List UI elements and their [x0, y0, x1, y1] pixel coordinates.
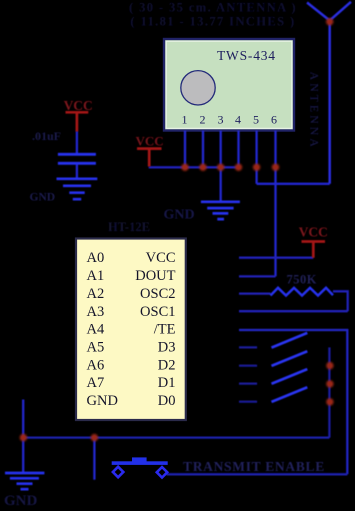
wire OSC2 row: [239, 292, 271, 294]
U1 pin labels left column: [87, 250, 118, 409]
junction dot antenna vertex: [326, 18, 333, 25]
wire pin3 vertical to ground: [220, 131, 222, 202]
svg-text:( 30 - 35 cm. ANTENNA ): ( 30 - 35 cm. ANTENNA ): [129, 1, 297, 15]
junction dots bottom rail: [20, 434, 98, 441]
svg-text:3: 3: [218, 113, 224, 127]
ground symbol under pin3: [201, 202, 240, 219]
svg-text:1: 1: [182, 113, 188, 127]
junction dots pin row: [181, 164, 279, 171]
label ANTENNA vertical: [307, 72, 321, 150]
label .01uF: [32, 129, 61, 143]
svg-text:GND: GND: [4, 493, 38, 509]
wire VCC row to right VCC: [239, 257, 313, 259]
svg-text:GND: GND: [164, 208, 195, 223]
svg-text:HT-12E: HT-12E: [108, 220, 150, 234]
note antenna length line 1: [129, 1, 297, 15]
svg-text:.01uF: .01uF: [32, 129, 61, 143]
svg-text:2: 2: [200, 113, 206, 127]
svg-text:A2: A2: [87, 286, 105, 302]
wire D2 stub: [239, 365, 257, 367]
power symbol VCC middle: [137, 149, 162, 167]
switch S1 lever D3: [272, 333, 308, 348]
wire bottom ground rail: [23, 436, 329, 438]
wire antenna horizontal from pin5: [257, 183, 330, 185]
wire D3 stub: [239, 346, 257, 348]
resistor R1 750K zigzag: [271, 288, 334, 296]
wire antenna vertical: [328, 21, 331, 184]
svg-text:A6: A6: [87, 357, 105, 373]
capacitor C1 plates: [58, 154, 96, 163]
svg-text:D0: D0: [158, 393, 176, 409]
svg-text:750K: 750K: [287, 273, 317, 287]
svg-text:A7: A7: [87, 375, 105, 391]
U1 pin labels right column: [135, 250, 175, 409]
switch S4 lever D0: [272, 387, 308, 402]
wire /TE row and right loop down: [239, 330, 347, 474]
capacitor C1 bottom lead: [76, 164, 78, 178]
svg-text:A1: A1: [87, 268, 105, 284]
pushbutton SW transmit enable: [112, 457, 168, 477]
wire /TE bottom to button: [167, 473, 348, 475]
svg-text:A3: A3: [87, 304, 105, 320]
svg-text:5: 5: [253, 113, 259, 127]
svg-text:GND: GND: [30, 192, 56, 204]
wire pin5 vertical: [255, 131, 257, 184]
wire pin1 vertical: [184, 131, 186, 168]
wire button riser: [93, 438, 95, 480]
antenna symbol arms: [307, 2, 351, 21]
svg-text:A5: A5: [87, 340, 105, 356]
encoder U1 HT-12E box: [76, 239, 186, 421]
svg-text:A0: A0: [87, 250, 105, 266]
label GND top-left: [30, 192, 56, 204]
svg-text:/TE: /TE: [154, 322, 176, 338]
wire OSC1 row: [239, 310, 348, 312]
svg-text:OSC2: OSC2: [140, 286, 175, 302]
ground symbol top-left: [57, 179, 98, 199]
svg-text:OSC1: OSC1: [140, 304, 175, 320]
svg-text:VCC: VCC: [299, 225, 328, 240]
svg-text:TWS-434: TWS-434: [217, 48, 276, 63]
svg-text:D1: D1: [158, 375, 176, 391]
svg-text:6: 6: [271, 113, 277, 127]
label 750K: [287, 273, 317, 287]
svg-text:D3: D3: [158, 340, 176, 356]
label GND bottom-left: [4, 493, 38, 509]
svg-text:VCC: VCC: [146, 250, 176, 266]
power symbol VCC right: [302, 242, 326, 258]
switch S3 lever D1: [272, 369, 308, 384]
svg-text:A4: A4: [87, 322, 105, 338]
wire pin2 vertical: [202, 131, 204, 168]
wire pin6 vertical to DOUT row: [274, 131, 276, 277]
svg-text:4: 4: [235, 113, 241, 127]
svg-text:DOUT: DOUT: [135, 268, 175, 284]
svg-text:ANTENNA: ANTENNA: [307, 72, 321, 150]
wire OSC1 riser to resistor: [333, 291, 348, 311]
label HT-12E: [108, 220, 150, 234]
wire D1 stub: [239, 383, 257, 385]
switch S2 lever D2: [272, 351, 308, 366]
label GND middle: [164, 208, 195, 223]
svg-text:VCC: VCC: [136, 134, 164, 149]
SAW resonator circle: [181, 71, 215, 105]
svg-text:TRANSMIT ENABLE: TRANSMIT ENABLE: [183, 459, 325, 474]
svg-text:GND: GND: [87, 393, 118, 409]
note antenna length line 2: [130, 15, 295, 29]
wire DOUT row: [239, 275, 276, 277]
wire switch common vertical: [328, 347, 330, 437]
module U2 TWS-434 box: [164, 39, 294, 131]
svg-text:( 11.81 - 13.77 INCHES ): ( 11.81 - 13.77 INCHES ): [130, 15, 295, 29]
wire D0 stub: [239, 401, 257, 403]
svg-text:VCC: VCC: [64, 98, 93, 113]
capacitor C1 top lead: [76, 131, 78, 154]
wire VCC rail at pins: [149, 166, 239, 168]
label TRANSMIT ENABLE: [183, 459, 325, 474]
ground symbol bottom-left: [5, 473, 44, 489]
power symbol VCC left: [66, 112, 89, 131]
wire pin4 vertical: [237, 131, 239, 168]
junction dots switch rail: [326, 362, 333, 406]
svg-text:D2: D2: [158, 357, 176, 373]
wire GND pin vertical left: [22, 400, 24, 473]
